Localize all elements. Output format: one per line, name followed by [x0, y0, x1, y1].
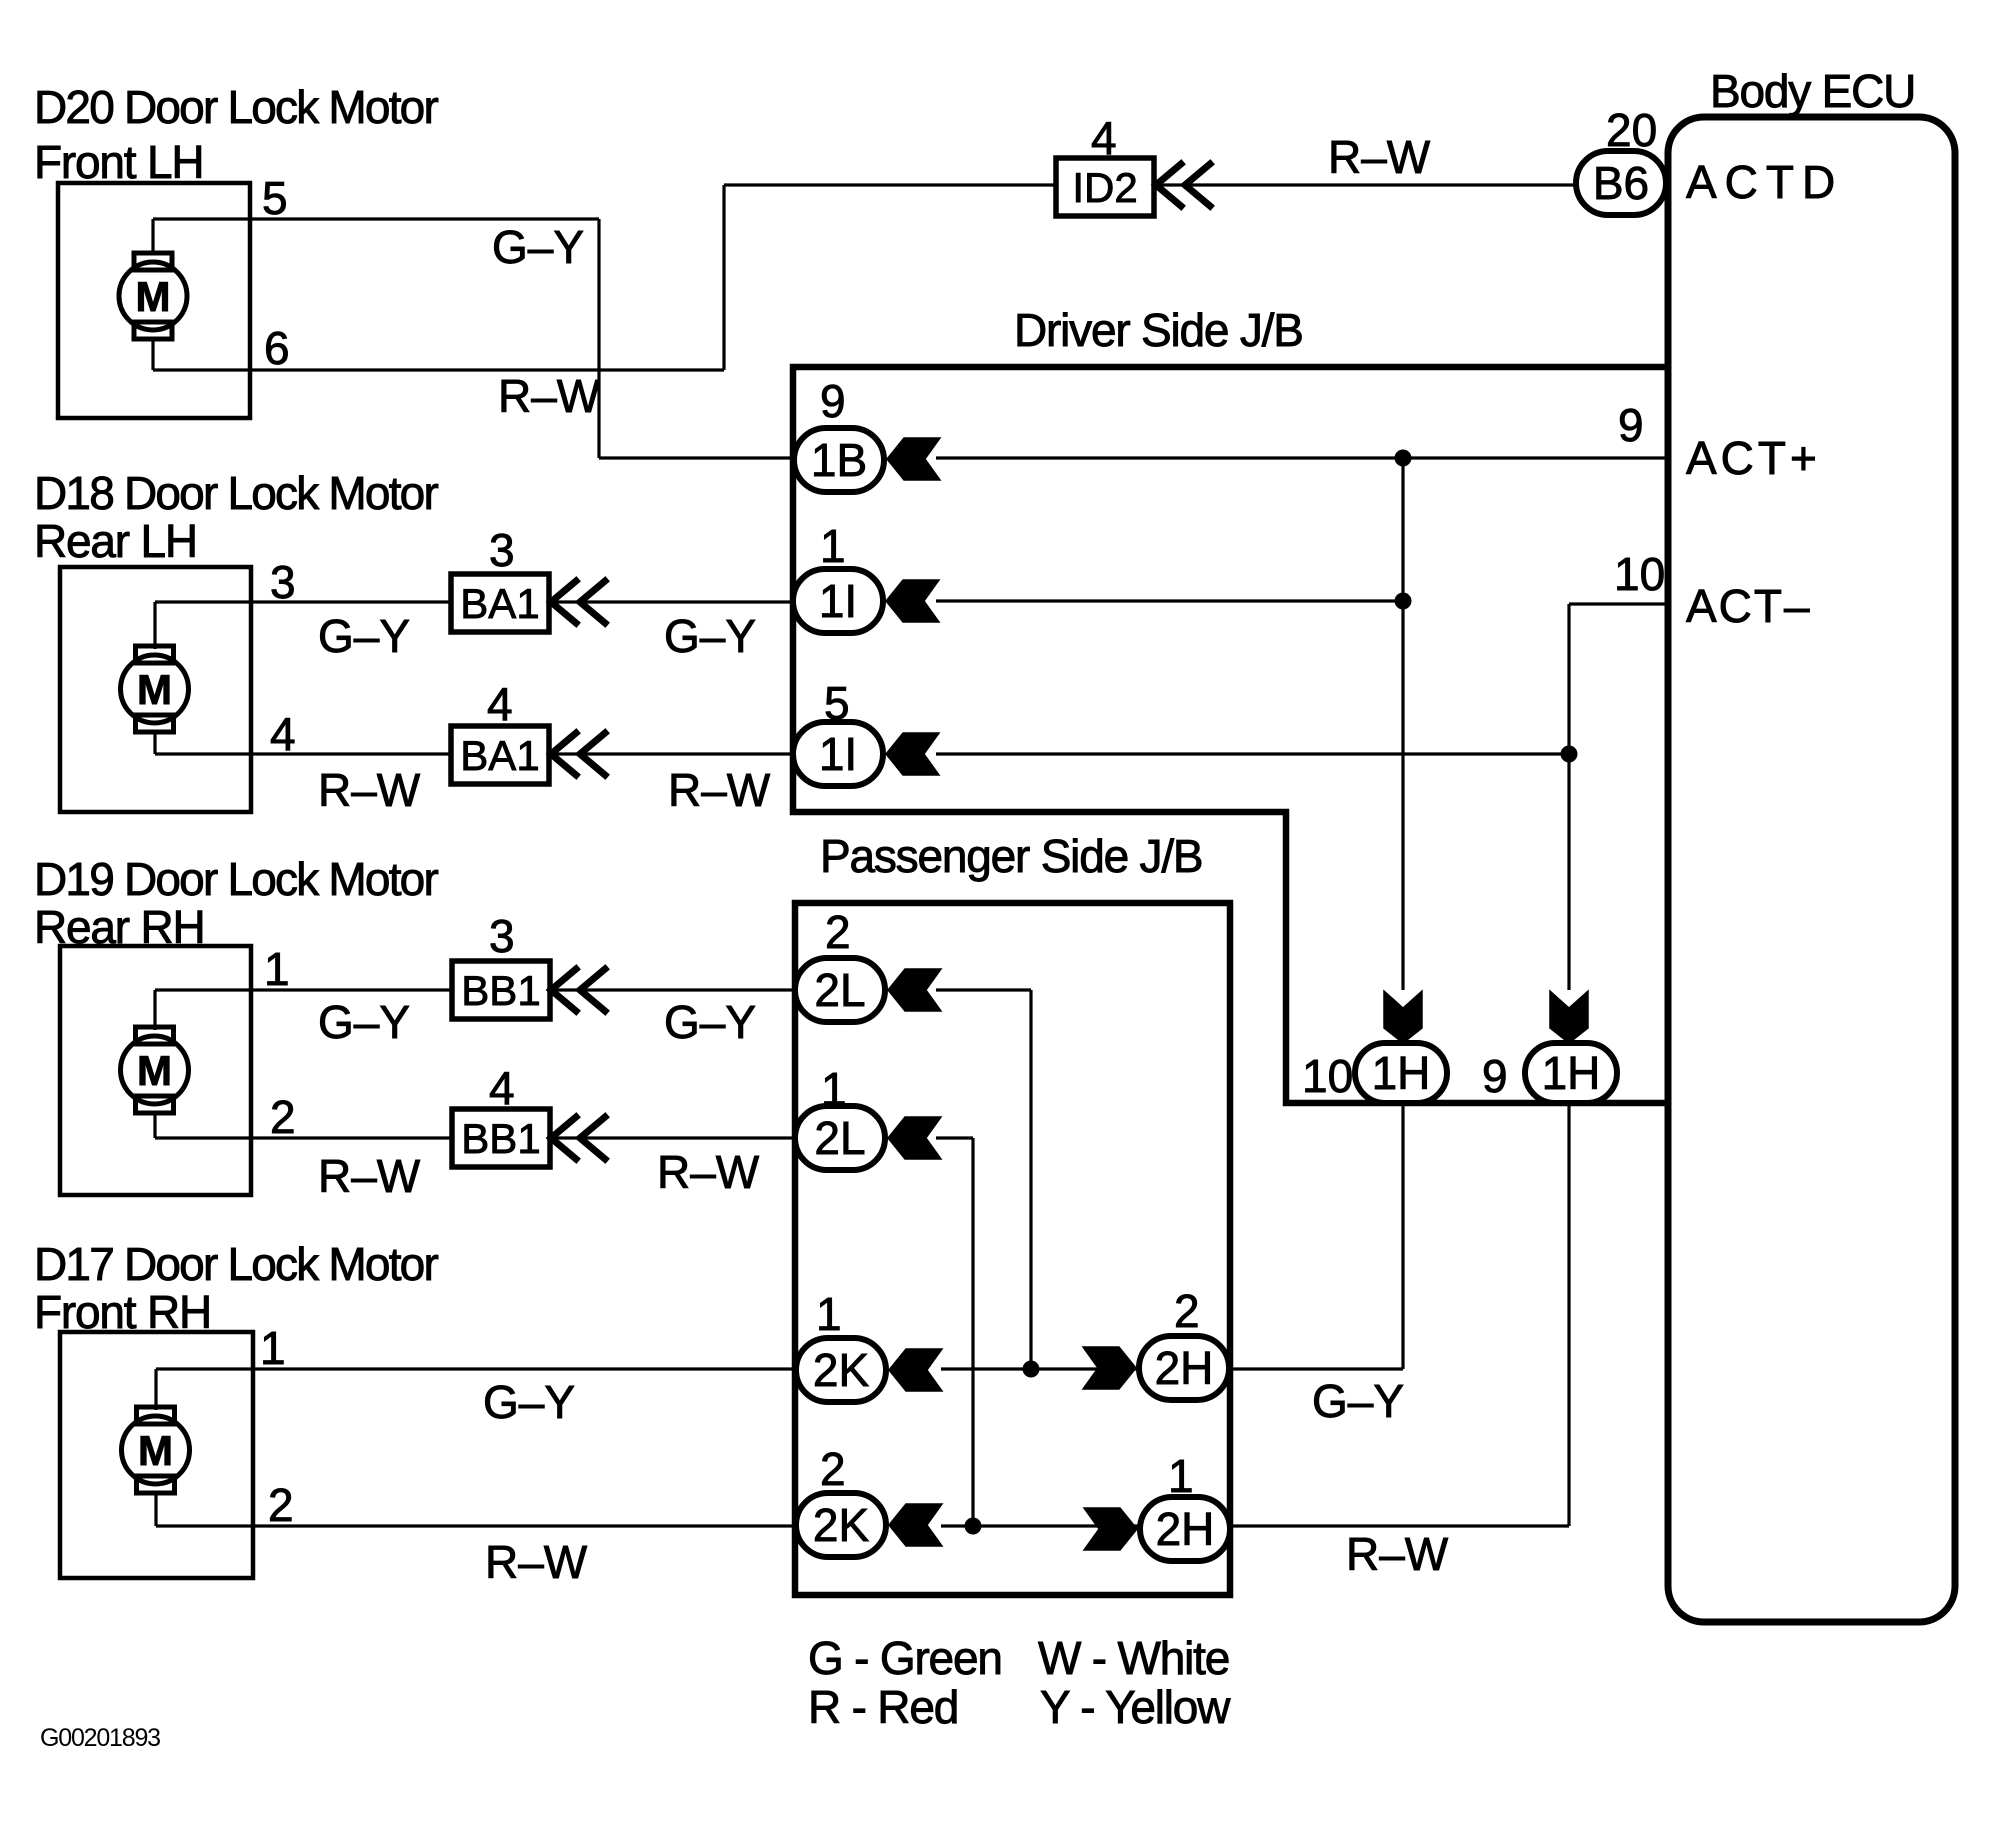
connector BB1 upper: [452, 961, 550, 1019]
connector 1I pin1 oval: [793, 569, 883, 633]
label G-Y (D18 right): [664, 610, 756, 662]
pin ACTD label: [1686, 156, 1843, 208]
Driver Side J/B label: [1014, 304, 1303, 356]
pin ACT+ label: [1686, 432, 1821, 484]
connector 1B oval: [794, 428, 884, 492]
svg-text:ID2: ID2: [1072, 164, 1137, 211]
svg-text:4: 4: [487, 678, 513, 730]
arrow into 2K pin2: [889, 1504, 942, 1546]
pin 3 label (D18): [270, 556, 296, 608]
wire D19 internal pin2: [153, 1114, 156, 1138]
svg-text:4: 4: [1091, 112, 1117, 164]
chevrons at BA1 lower: [551, 733, 605, 775]
connector B6 oval: [1576, 151, 1666, 215]
wire D19 internal pin1: [153, 990, 156, 1030]
arrow into 2H pin2: [1083, 1347, 1136, 1389]
legend W - White: [1038, 1632, 1229, 1684]
Body ECU box: [1668, 117, 1955, 1622]
connector 2H pin2 oval: [1139, 1336, 1229, 1400]
chevrons at ID2: [1156, 164, 1210, 206]
svg-text:B6: B6: [1593, 157, 1649, 209]
svg-text:G–Y: G–Y: [318, 610, 410, 662]
svg-text:2L: 2L: [814, 964, 865, 1016]
figure id G00201893: [40, 1724, 160, 1752]
svg-text:G00201893: G00201893: [40, 1724, 160, 1752]
label R-W (ID2 to B6): [1328, 131, 1431, 183]
svg-text:R–W: R–W: [318, 764, 421, 816]
chevrons at BB1 lower: [551, 1117, 605, 1159]
wire ACT- from ECU: [1569, 604, 1667, 990]
pin 2 label (D17): [268, 1479, 294, 1531]
legend Y - Yellow: [1040, 1681, 1231, 1733]
motor D20 title: [34, 81, 438, 188]
svg-text:1: 1: [820, 520, 846, 572]
wire 1I pin1 to junction: [936, 599, 1403, 602]
svg-text:Y - Yellow: Y - Yellow: [1040, 1681, 1231, 1733]
svg-text:R–W: R–W: [668, 764, 771, 816]
svg-text:M: M: [136, 273, 171, 320]
svg-text:R–W: R–W: [485, 1536, 588, 1588]
arrow into 1I pin5: [886, 733, 939, 775]
connector BB1 lower: [452, 1109, 550, 1167]
svg-text:4: 4: [489, 1062, 515, 1114]
svg-text:BB1: BB1: [461, 967, 540, 1014]
pin 9 label (ACT+): [1618, 399, 1644, 451]
pin 10 label (1H): [1302, 1050, 1353, 1102]
svg-text:2: 2: [1174, 1285, 1200, 1337]
svg-text:3: 3: [270, 556, 296, 608]
connector 1H pin9 oval: [1525, 1043, 1617, 1103]
pin 9 label (1H): [1482, 1050, 1508, 1102]
junction 2L2 / 2K1 wire: [1023, 1361, 1040, 1378]
connector BA1 upper: [451, 574, 549, 632]
pin 4 label (D18): [270, 708, 296, 760]
svg-text:1: 1: [816, 1288, 842, 1340]
label R-W (2H right): [1346, 1528, 1449, 1580]
pin 4 label (ID2): [1091, 112, 1117, 164]
svg-text:2L: 2L: [814, 1112, 865, 1164]
pin 2 label (2L): [825, 906, 851, 958]
label G-Y (2H right): [1312, 1375, 1404, 1427]
pin 10 label (ACT-): [1614, 548, 1665, 600]
svg-text:Front LH: Front LH: [34, 136, 203, 188]
arrow into 2L pin2: [888, 969, 941, 1011]
svg-text:1H: 1H: [1372, 1047, 1431, 1099]
svg-text:2: 2: [825, 906, 851, 958]
svg-text:R–W: R–W: [318, 1150, 421, 1202]
junction 1I pin1 / ACT+ branch: [1395, 593, 1412, 610]
pin 4 label (BB1): [489, 1062, 515, 1114]
svg-text:ACT+: ACT+: [1686, 432, 1821, 484]
wire D18 pin4 row (R-W): [155, 752, 795, 755]
Driver Side J/B box: [793, 367, 1669, 1103]
svg-text:1I: 1I: [819, 728, 857, 780]
svg-text:ACT–: ACT–: [1686, 580, 1812, 632]
svg-text:G–Y: G–Y: [664, 610, 756, 662]
label R-W (D20): [498, 370, 601, 422]
pin 20 label (B6): [1606, 104, 1657, 156]
pin 1 label (D19): [264, 943, 290, 995]
wire D18 internal pin4: [153, 733, 156, 754]
arrow into 1H pin10: [1384, 991, 1422, 1043]
label R-W (D18 left): [318, 764, 421, 816]
svg-text:Body ECU: Body ECU: [1710, 65, 1915, 117]
svg-text:D18 Door Lock Motor: D18 Door Lock Motor: [34, 467, 438, 519]
connector 2L pin2 oval: [795, 958, 885, 1022]
junction ACT+ / 1H branch: [1395, 450, 1412, 467]
pin 3 label (BA1): [489, 524, 515, 576]
label R-W (D19 right): [657, 1146, 760, 1198]
connector 1I pin5 oval: [793, 722, 883, 786]
connector BA1 lower: [451, 726, 549, 784]
svg-text:ACTD: ACTD: [1686, 156, 1843, 208]
arrow into 2K pin1: [889, 1349, 942, 1391]
connector 2L pin1 oval: [795, 1106, 885, 1170]
wire D18 pin3 row (G-Y): [155, 600, 795, 603]
svg-text:4: 4: [270, 708, 296, 760]
pin 2 label (2K): [820, 1443, 846, 1495]
svg-text:5: 5: [824, 677, 850, 729]
svg-text:Passenger Side J/B: Passenger Side J/B: [820, 830, 1202, 882]
svg-text:G–Y: G–Y: [1312, 1375, 1404, 1427]
svg-text:2H: 2H: [1155, 1342, 1214, 1394]
svg-text:2K: 2K: [813, 1499, 870, 1551]
svg-text:1I: 1I: [819, 575, 857, 627]
svg-text:BA1: BA1: [460, 732, 539, 779]
pin 1 label (D17): [260, 1322, 286, 1374]
svg-text:1: 1: [1168, 1450, 1194, 1502]
wire D19 pin2 row (R-W): [155, 1136, 795, 1139]
pin 3 label (BB1): [489, 910, 515, 962]
connector 2K pin2 oval: [796, 1493, 886, 1557]
label G-Y (D19 left): [318, 996, 410, 1048]
svg-text:G - Green: G - Green: [808, 1632, 1002, 1684]
wire D18 internal pin3: [153, 602, 156, 649]
svg-text:R–W: R–W: [1346, 1528, 1449, 1580]
wire D20 pin6 to ID2 (R-W): [153, 185, 1056, 370]
svg-text:R - Red: R - Red: [808, 1681, 958, 1733]
wire ID2 to B6 (R-W): [1154, 183, 1578, 186]
Passenger Side J/B label: [820, 830, 1202, 882]
svg-text:G–Y: G–Y: [318, 996, 410, 1048]
pin 2 label (D19): [270, 1091, 296, 1143]
svg-text:3: 3: [489, 524, 515, 576]
pin 5 label (1I): [824, 677, 850, 729]
motor D17 title: [34, 1238, 438, 1338]
wire 2K pin2 to 2H pin1: [941, 1524, 1139, 1527]
svg-text:BB1: BB1: [461, 1115, 540, 1162]
wire 2H pin1 up to 1H (R-W): [1231, 1106, 1569, 1526]
motor D19 box: [60, 946, 251, 1195]
label R-W (D19 left): [318, 1150, 421, 1202]
svg-text:10: 10: [1614, 548, 1665, 600]
wire 2H pin2 up to 1H (G-Y): [1231, 1106, 1403, 1369]
svg-text:G–Y: G–Y: [664, 996, 756, 1048]
svg-text:1: 1: [264, 943, 290, 995]
wire D19 pin1 row (G-Y): [155, 988, 795, 991]
junction 1I pin5 / ACT- branch: [1561, 746, 1578, 763]
motor D20 box: [58, 183, 250, 418]
connector ID2: [1056, 158, 1154, 216]
svg-text:2: 2: [268, 1479, 294, 1531]
svg-text:2K: 2K: [813, 1344, 870, 1396]
svg-text:2: 2: [270, 1091, 296, 1143]
wire ACT+ branch down to 1H: [1401, 458, 1404, 990]
legend G - Green: [808, 1632, 1002, 1684]
svg-text:D19 Door Lock Motor: D19 Door Lock Motor: [34, 853, 438, 905]
wire 2L pin2 to junction: [936, 990, 1031, 1369]
svg-text:10: 10: [1302, 1050, 1353, 1102]
arrow into 2H pin1: [1084, 1508, 1137, 1550]
motor D18 box: [60, 567, 251, 812]
legend R - Red: [808, 1681, 958, 1733]
svg-text:2H: 2H: [1156, 1503, 1215, 1555]
wire 2K pin1 to 2H pin2: [941, 1367, 1139, 1370]
svg-text:D17 Door Lock Motor: D17 Door Lock Motor: [34, 1238, 438, 1290]
pin 2 label (2H): [1174, 1285, 1200, 1337]
svg-text:BA1: BA1: [460, 580, 539, 627]
svg-text:Driver Side J/B: Driver Side J/B: [1014, 304, 1303, 356]
pin 1 label (1I): [820, 520, 846, 572]
connector 2K pin1 oval: [796, 1338, 886, 1402]
svg-text:1B: 1B: [811, 434, 867, 486]
label R-W (D17): [485, 1536, 588, 1588]
arrow into 1B: [887, 438, 940, 480]
wire 1I pin5 to junction: [936, 752, 1569, 755]
pin 9 label (1B): [820, 375, 846, 427]
junction 2L1 / 2K2 wire: [965, 1518, 982, 1535]
label G-Y (D20): [492, 221, 584, 273]
svg-text:M: M: [137, 666, 172, 713]
Passenger Side J/B box: [795, 903, 1230, 1595]
svg-text:W - White: W - White: [1038, 1632, 1229, 1684]
svg-text:Rear LH: Rear LH: [34, 515, 197, 567]
wire D17 internal pin1: [154, 1369, 157, 1410]
wire ACT+ to 1B arrow: [936, 456, 1667, 459]
motor D19 title: [34, 853, 438, 953]
svg-text:M: M: [138, 1427, 173, 1474]
connector 2H pin1 oval: [1140, 1497, 1230, 1561]
label G-Y (D18 left): [318, 610, 410, 662]
arrow into 2L pin1: [888, 1117, 941, 1159]
svg-text:1H: 1H: [1542, 1047, 1601, 1099]
pin 1 label (2L): [821, 1063, 847, 1115]
connector 1H pin10 oval: [1355, 1043, 1447, 1103]
arrow into 1I pin1: [886, 580, 939, 622]
svg-text:9: 9: [820, 375, 846, 427]
svg-text:1: 1: [260, 1322, 286, 1374]
label G-Y (D17): [483, 1376, 575, 1428]
svg-text:1: 1: [821, 1063, 847, 1115]
pin ACT- label: [1686, 580, 1812, 632]
wire D17 internal pin2: [154, 1494, 157, 1526]
wire D17 pin2 row (R-W): [156, 1524, 795, 1527]
svg-text:5: 5: [262, 172, 288, 224]
motor D17 box: [60, 1332, 253, 1578]
svg-text:D20 Door Lock Motor: D20 Door Lock Motor: [34, 81, 438, 133]
svg-text:2: 2: [820, 1443, 846, 1495]
svg-text:G–Y: G–Y: [483, 1376, 575, 1428]
wire D20 internal pin5: [151, 219, 154, 254]
pin 6 label (D20): [264, 322, 290, 374]
svg-text:6: 6: [264, 322, 290, 374]
motor D18 title: [34, 467, 438, 567]
chevrons at BB1 upper: [551, 969, 605, 1011]
svg-text:R–W: R–W: [498, 370, 601, 422]
arrow into 1H pin9: [1550, 991, 1588, 1043]
pin 4 label (BA1): [487, 678, 513, 730]
svg-text:M: M: [137, 1047, 172, 1094]
Body ECU label: [1710, 65, 1915, 117]
chevrons at BA1 upper: [551, 581, 605, 623]
svg-text:9: 9: [1618, 399, 1644, 451]
svg-text:3: 3: [489, 910, 515, 962]
wire D20 internal pin6: [151, 340, 154, 370]
svg-text:R–W: R–W: [657, 1146, 760, 1198]
wire 2L pin1 to junction: [936, 1138, 973, 1526]
svg-text:9: 9: [1482, 1050, 1508, 1102]
pin 1 label (2H): [1168, 1450, 1194, 1502]
label R-W (D18 right): [668, 764, 771, 816]
wire D20 pin5 to 1B (G-Y): [153, 219, 795, 458]
pin 1 label (2K): [816, 1288, 842, 1340]
svg-text:R–W: R–W: [1328, 131, 1431, 183]
label G-Y (D19 right): [664, 996, 756, 1048]
svg-text:G–Y: G–Y: [492, 221, 584, 273]
pin 5 label (D20): [262, 172, 288, 224]
wire D17 pin1 row (G-Y): [156, 1367, 795, 1370]
